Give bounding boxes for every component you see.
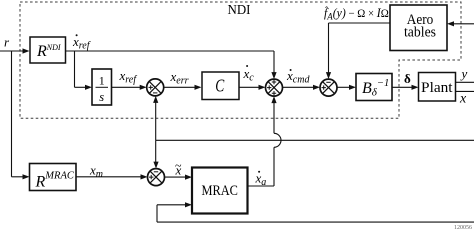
svg-text:Plant: Plant — [421, 80, 453, 96]
wire xdot_ref horizontal — [66, 50, 275, 52]
wire xdot_cmd — [283, 85, 321, 90]
block C — [202, 72, 239, 100]
wire summer S3 to B_delta_inverse — [337, 85, 356, 90]
svg-text:NDI: NDI — [228, 3, 251, 18]
svg-text:tables: tables — [404, 25, 436, 41]
svg-text:δ: δ — [404, 71, 411, 86]
wire feedback dropper into summer S4 — [153, 140, 158, 168]
summer S2 — [266, 79, 283, 96]
label f_A(y) minus Omega x I Omega — [324, 5, 389, 22]
wire xdot_c — [239, 85, 266, 90]
svg-text:s: s — [99, 90, 104, 104]
dashed boundary NDI region — [20, 2, 461, 118]
label xdot_c — [243, 65, 255, 84]
wire r input — [0, 48, 30, 53]
wire aero output f_A down into summer S3 — [326, 23, 390, 79]
wire feedback riser into summer S1 — [153, 96, 158, 140]
svg-text:fA(y) − Ω × IΩ: fA(y) − Ω × IΩ — [324, 6, 389, 22]
label xdot_a — [255, 171, 267, 189]
wire y feedback bottom from right edge — [157, 221, 474, 223]
wire xdot_ref down into summer S2 — [271, 51, 276, 79]
summer S1 — [147, 79, 164, 96]
label x_tilde — [175, 159, 183, 178]
wire x state feedback from right edge — [156, 139, 474, 141]
block Aero tables — [390, 5, 447, 51]
wire x_err — [164, 85, 202, 90]
wire output y — [455, 81, 474, 83]
wire r branch down to R_MRAC — [12, 51, 30, 179]
wire xdot_a with hop into summer S2 — [248, 96, 282, 186]
block B_delta_inverse — [356, 74, 392, 101]
block MRAC — [192, 168, 248, 214]
wire aero input from right edge — [447, 21, 474, 26]
svg-text:120056: 120056 — [454, 225, 472, 230]
summer S3 — [320, 79, 337, 96]
label xdot_ref — [72, 34, 91, 52]
wire output x — [455, 90, 474, 92]
svg-text:y: y — [460, 66, 468, 81]
block integrator 1/s — [92, 69, 112, 105]
block R_NDI — [30, 37, 66, 63]
svg-text:1: 1 — [99, 74, 105, 88]
wire x_m — [76, 174, 148, 179]
svg-text:~: ~ — [175, 159, 182, 173]
wire branch to integrator — [75, 51, 93, 90]
wire x_tilde — [165, 175, 193, 180]
summer S4 — [148, 169, 165, 186]
label xdot_cmd — [286, 68, 310, 86]
svg-text:x: x — [459, 92, 467, 107]
wire x_ref — [112, 85, 147, 90]
svg-text:C: C — [215, 76, 225, 96]
svg-text:MRAC: MRAC — [201, 183, 238, 199]
wire delta — [392, 85, 419, 90]
wire y feedback up into MRAC — [157, 202, 192, 222]
block Plant — [419, 73, 456, 102]
block R_MRAC — [30, 164, 77, 191]
